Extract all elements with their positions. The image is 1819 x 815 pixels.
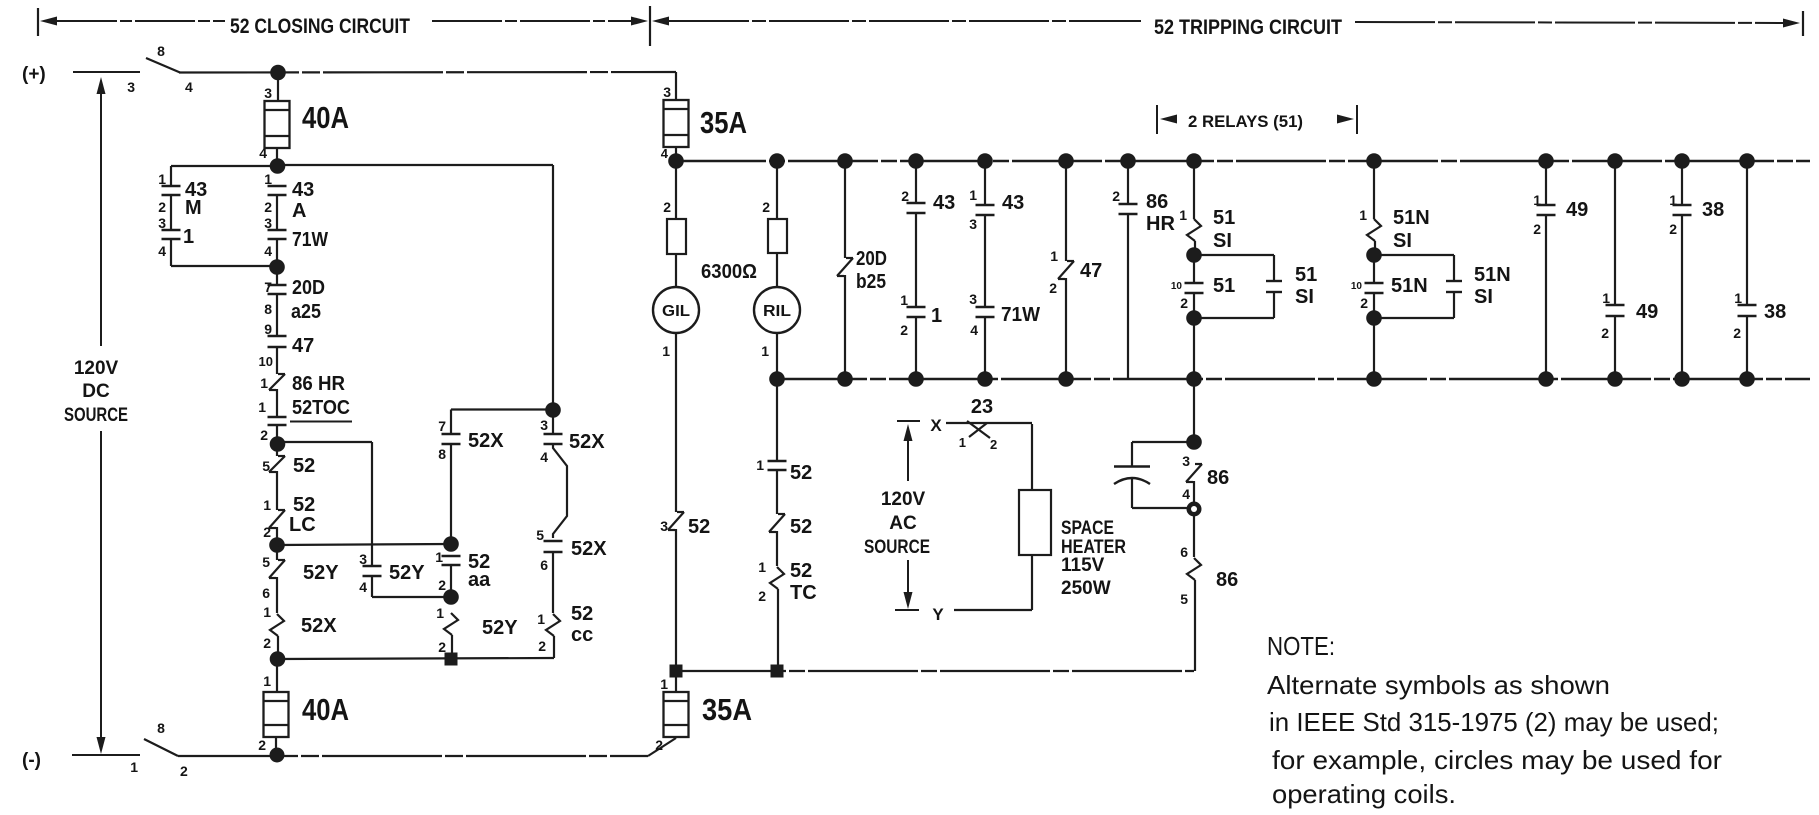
- svg-text:43: 43: [1002, 192, 1024, 214]
- svg-text:1: 1: [662, 343, 670, 359]
- svg-text:2: 2: [663, 199, 671, 215]
- svg-text:NOTE:: NOTE:: [1267, 631, 1335, 661]
- svg-text:6300Ω: 6300Ω: [701, 261, 757, 283]
- svg-text:1: 1: [263, 497, 271, 513]
- svg-text:86: 86: [1216, 569, 1238, 591]
- svg-text:SI: SI: [1295, 286, 1314, 308]
- svg-text:9: 9: [264, 321, 272, 337]
- svg-text:1: 1: [264, 171, 272, 187]
- svg-text:1: 1: [1359, 207, 1367, 223]
- svg-text:71W: 71W: [292, 229, 328, 251]
- svg-text:23: 23: [971, 396, 993, 418]
- svg-text:40A: 40A: [302, 100, 349, 135]
- svg-text:52: 52: [790, 560, 812, 582]
- svg-text:1: 1: [1050, 248, 1058, 264]
- svg-text:52X: 52X: [571, 538, 607, 560]
- svg-text:1: 1: [761, 343, 769, 359]
- svg-text:8: 8: [438, 446, 446, 462]
- svg-text:52Y: 52Y: [482, 617, 518, 639]
- svg-text:3: 3: [540, 417, 548, 433]
- svg-text:51N: 51N: [1393, 207, 1430, 229]
- svg-text:X: X: [930, 416, 942, 435]
- svg-text:SPACE: SPACE: [1061, 518, 1114, 539]
- svg-text:Y: Y: [932, 605, 944, 624]
- svg-text:SI: SI: [1393, 230, 1412, 252]
- svg-text:52: 52: [790, 462, 812, 484]
- svg-text:2: 2: [438, 577, 446, 593]
- svg-text:cc: cc: [571, 624, 593, 646]
- svg-text:52: 52: [688, 516, 710, 538]
- svg-text:2: 2: [901, 188, 909, 204]
- svg-text:2: 2: [180, 763, 188, 779]
- svg-text:3: 3: [1182, 453, 1190, 469]
- svg-text:6: 6: [262, 585, 270, 601]
- svg-text:7: 7: [438, 418, 446, 434]
- svg-text:52TOC: 52TOC: [292, 397, 350, 419]
- svg-text:3: 3: [663, 84, 671, 100]
- svg-text:52Y: 52Y: [389, 562, 425, 584]
- svg-text:SOURCE: SOURCE: [864, 537, 930, 558]
- svg-text:2: 2: [1733, 325, 1741, 341]
- svg-text:1: 1: [660, 676, 668, 692]
- svg-text:47: 47: [292, 335, 314, 357]
- svg-text:2: 2: [1601, 325, 1609, 341]
- svg-text:51N: 51N: [1391, 275, 1428, 297]
- svg-text:A: A: [292, 200, 306, 222]
- svg-text:8: 8: [157, 43, 165, 59]
- svg-text:35A: 35A: [700, 105, 747, 140]
- svg-text:51: 51: [1213, 275, 1235, 297]
- svg-text:5: 5: [1180, 591, 1188, 607]
- svg-text:49: 49: [1636, 301, 1658, 323]
- svg-text:20D: 20D: [292, 277, 325, 299]
- svg-text:DC: DC: [82, 381, 110, 402]
- svg-text:1: 1: [130, 759, 138, 775]
- svg-text:250W: 250W: [1061, 578, 1111, 599]
- svg-text:8: 8: [264, 301, 272, 317]
- svg-text:20D: 20D: [856, 248, 887, 270]
- svg-text:51: 51: [1295, 264, 1317, 286]
- svg-text:51: 51: [1213, 207, 1235, 229]
- svg-text:1: 1: [756, 457, 764, 473]
- svg-text:52X: 52X: [468, 430, 504, 452]
- svg-text:1: 1: [1602, 290, 1610, 306]
- svg-text:2: 2: [900, 322, 908, 338]
- svg-text:3: 3: [264, 85, 272, 101]
- svg-text:3: 3: [660, 518, 668, 534]
- svg-text:1: 1: [1179, 207, 1187, 223]
- svg-text:52X: 52X: [301, 615, 337, 637]
- svg-text:6: 6: [540, 557, 548, 573]
- svg-text:2: 2: [260, 427, 268, 443]
- svg-text:SI: SI: [1474, 286, 1493, 308]
- svg-text:4: 4: [185, 79, 193, 95]
- svg-text:1: 1: [969, 187, 977, 203]
- svg-text:1: 1: [900, 292, 908, 308]
- svg-text:operating coils.: operating coils.: [1272, 779, 1456, 809]
- svg-text:3: 3: [158, 215, 166, 231]
- svg-text:47: 47: [1080, 260, 1102, 282]
- svg-text:1: 1: [260, 375, 268, 391]
- svg-text:86: 86: [1146, 191, 1168, 213]
- svg-text:4: 4: [970, 322, 978, 338]
- svg-text:52 TRIPPING CIRCUIT: 52 TRIPPING CIRCUIT: [1154, 16, 1342, 39]
- svg-text:51N: 51N: [1474, 264, 1511, 286]
- svg-text:1: 1: [263, 673, 271, 689]
- svg-text:2: 2: [263, 524, 271, 540]
- svg-text:52X: 52X: [569, 431, 605, 453]
- svg-text:35A: 35A: [702, 692, 752, 727]
- svg-text:a25: a25: [291, 301, 321, 323]
- svg-text:AC: AC: [889, 513, 917, 534]
- svg-text:3: 3: [127, 79, 135, 95]
- svg-text:38: 38: [1702, 199, 1724, 221]
- svg-text:1: 1: [537, 611, 545, 627]
- svg-text:HR: HR: [1146, 213, 1175, 235]
- svg-text:2: 2: [1360, 295, 1368, 311]
- svg-text:aa: aa: [468, 569, 491, 591]
- svg-text:43: 43: [292, 179, 314, 201]
- svg-text:2: 2: [758, 588, 766, 604]
- svg-text:3: 3: [359, 551, 367, 567]
- svg-text:2: 2: [990, 437, 997, 452]
- svg-text:M: M: [185, 197, 202, 219]
- svg-text:for example, circles may be us: for example, circles may be used for: [1272, 745, 1722, 775]
- svg-text:10: 10: [1351, 281, 1363, 292]
- svg-text:4: 4: [158, 243, 166, 259]
- svg-text:TC: TC: [790, 582, 817, 604]
- svg-text:3: 3: [969, 216, 977, 232]
- svg-text:4: 4: [661, 146, 669, 161]
- svg-text:5: 5: [262, 554, 270, 570]
- svg-text:52: 52: [571, 603, 593, 625]
- svg-text:2: 2: [1669, 221, 1677, 237]
- svg-text:1: 1: [959, 435, 966, 450]
- svg-text:52: 52: [790, 516, 812, 538]
- svg-text:4: 4: [359, 579, 367, 595]
- svg-text:(+): (+): [22, 64, 46, 85]
- svg-text:120V: 120V: [881, 489, 926, 510]
- svg-text:71W: 71W: [1001, 304, 1040, 326]
- svg-text:2 RELAYS (51): 2 RELAYS (51): [1188, 112, 1303, 131]
- svg-text:(-): (-): [22, 750, 41, 771]
- svg-text:2: 2: [538, 638, 546, 654]
- svg-text:RIL: RIL: [763, 303, 791, 320]
- svg-text:4: 4: [264, 243, 272, 259]
- svg-text:LC: LC: [289, 514, 316, 536]
- svg-text:1: 1: [263, 604, 271, 620]
- svg-text:40A: 40A: [302, 692, 349, 727]
- svg-text:2: 2: [263, 635, 271, 651]
- svg-text:1: 1: [183, 226, 194, 248]
- svg-text:120V: 120V: [74, 358, 119, 379]
- svg-text:1: 1: [1734, 290, 1742, 306]
- svg-text:2: 2: [158, 199, 166, 215]
- svg-text:3: 3: [969, 291, 977, 307]
- svg-text:2: 2: [258, 737, 266, 753]
- svg-text:6: 6: [1180, 544, 1188, 560]
- svg-text:1: 1: [158, 171, 166, 187]
- svg-text:SOURCE: SOURCE: [64, 405, 128, 426]
- svg-text:2: 2: [1049, 280, 1057, 296]
- svg-text:52: 52: [293, 494, 315, 516]
- svg-text:GIL: GIL: [662, 303, 690, 320]
- svg-text:2: 2: [1112, 188, 1120, 204]
- svg-text:1: 1: [758, 559, 766, 575]
- svg-text:2: 2: [1533, 221, 1541, 237]
- svg-text:3: 3: [264, 215, 272, 231]
- svg-text:4: 4: [1182, 486, 1190, 502]
- svg-text:10: 10: [1171, 281, 1183, 292]
- svg-text:10: 10: [259, 354, 273, 369]
- svg-text:7: 7: [264, 279, 272, 295]
- svg-text:2: 2: [762, 199, 770, 215]
- svg-text:b25: b25: [856, 271, 886, 293]
- svg-text:in IEEE Std 315-1975 (2) may b: in IEEE Std 315-1975 (2) may be used;: [1269, 707, 1719, 737]
- svg-text:52: 52: [293, 455, 315, 477]
- svg-text:4: 4: [540, 449, 548, 465]
- svg-text:43: 43: [933, 192, 955, 214]
- svg-text:115V: 115V: [1061, 555, 1105, 576]
- svg-text:2: 2: [655, 737, 663, 753]
- svg-text:2: 2: [264, 199, 272, 215]
- svg-text:1: 1: [436, 605, 444, 621]
- svg-text:38: 38: [1764, 301, 1786, 323]
- svg-text:86: 86: [1207, 467, 1229, 489]
- svg-text:5: 5: [536, 527, 544, 543]
- svg-text:52Y: 52Y: [303, 562, 339, 584]
- svg-text:4: 4: [259, 145, 267, 161]
- svg-text:86 HR: 86 HR: [292, 373, 346, 395]
- svg-text:52 CLOSING CIRCUIT: 52 CLOSING CIRCUIT: [230, 15, 410, 38]
- svg-text:1: 1: [258, 399, 266, 415]
- svg-text:1: 1: [931, 305, 942, 327]
- svg-text:2: 2: [1180, 295, 1188, 311]
- svg-text:Alternate symbols as shown: Alternate symbols as shown: [1267, 670, 1610, 700]
- svg-text:8: 8: [157, 720, 165, 736]
- svg-text:SI: SI: [1213, 230, 1232, 252]
- svg-text:49: 49: [1566, 199, 1588, 221]
